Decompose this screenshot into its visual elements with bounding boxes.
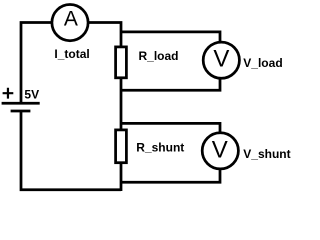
- svg-text:V_load: V_load: [243, 56, 282, 70]
- voltmeter U2 circle (V_load): [203, 42, 239, 78]
- resistor R_load body: [116, 47, 127, 78]
- resistor R_shunt body: [116, 130, 127, 163]
- wire: top branch from node to V_load top: [121, 32, 220, 60]
- ammeter U1 circle: [52, 5, 88, 41]
- wire: V_load bottom back to middle branch: [121, 60, 220, 90]
- battery V1 positive plate: [2, 102, 40, 105]
- wire: battery negative down and across bottom: [21, 111, 121, 190]
- wire: middle node to V_shunt top: [121, 123, 220, 150]
- svg-text:R_load: R_load: [139, 49, 179, 63]
- svg-text:V_shunt: V_shunt: [243, 147, 290, 161]
- wire: battery positive up and across top to middle branch, down middle branch: [21, 23, 121, 192]
- battery plus sign: [3, 88, 14, 99]
- voltmeter U3 circle (V_shunt): [202, 133, 238, 169]
- svg-text:I_total: I_total: [54, 47, 89, 61]
- svg-text:A: A: [64, 7, 78, 30]
- svg-text:R_shunt: R_shunt: [136, 141, 184, 155]
- wire: V_shunt bottom back to shunt branch: [121, 151, 220, 183]
- svg-text:V: V: [213, 46, 229, 73]
- battery V1 negative plate: [11, 110, 31, 113]
- svg-text:V: V: [212, 136, 228, 163]
- svg-text:5V: 5V: [24, 87, 39, 101]
